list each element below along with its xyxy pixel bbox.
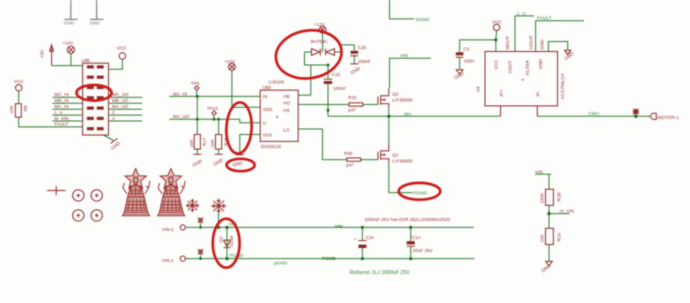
svg-text:pGND: pGND	[274, 261, 288, 267]
svg-text:p47: p47	[346, 163, 354, 168]
svg-text:GND: GND	[64, 21, 75, 26]
svg-text:FILTER: FILTER	[525, 59, 530, 75]
svg-text:10K: 10K	[540, 233, 545, 242]
svg-text:C10: C10	[332, 72, 341, 77]
svg-text:p47: p47	[348, 108, 356, 113]
svg-text:MC_UO: MC_UO	[112, 92, 129, 97]
svg-text:VIN: VIN	[535, 169, 543, 174]
svg-text:GND: GND	[538, 58, 543, 69]
svg-text:100nF: 100nF	[333, 86, 346, 91]
svg-text:U4: U4	[476, 86, 481, 92]
svg-text:PGND: PGND	[413, 190, 427, 196]
svg-text:Rubycon 1LJ 1000uF 25V: Rubycon 1LJ 1000uF 25V	[350, 270, 411, 276]
svg-text:20uF 25V: 20uF 25V	[413, 248, 434, 253]
svg-text:10K: 10K	[189, 138, 194, 147]
svg-text:VCC: VCC	[117, 45, 127, 50]
svg-text:MA: MA	[404, 111, 412, 117]
svg-text:U$5: U$5	[82, 58, 91, 63]
svg-text:MOUT: MOUT	[505, 36, 510, 50]
svg-text:MC_HI: MC_HI	[55, 92, 69, 97]
svg-text:+3V: +3V	[40, 49, 45, 58]
svg-text:IP+: IP+	[499, 89, 504, 96]
svg-text:R31: R31	[348, 95, 357, 100]
svg-text:TP10: TP10	[207, 106, 218, 111]
svg-text:100K: 100K	[540, 192, 545, 204]
svg-text:C2x: C2x	[366, 235, 375, 240]
svg-text:4: 4	[276, 115, 279, 120]
svg-text:FAULT: FAULT	[55, 122, 69, 127]
svg-text:HS: HS	[283, 108, 289, 113]
svg-text:+12V: +12V	[224, 59, 236, 64]
svg-text:Q2: Q2	[392, 91, 399, 96]
svg-text:L_A: L_A	[517, 11, 526, 17]
svg-text:R17: R17	[202, 137, 207, 146]
svg-text:LO: LO	[283, 128, 290, 133]
svg-text:HI: HI	[263, 94, 268, 99]
svg-text:U$3: U$3	[263, 85, 272, 90]
svg-text:VIOUT: VIOUT	[529, 35, 534, 49]
svg-text:VCC: VCC	[492, 19, 502, 24]
svg-text:MA_UO: MA_UO	[173, 114, 190, 119]
svg-text:1000uF 25V low ESR 25ZLJ1000M1: 1000uF 25V low ESR 25ZLJ1000M10X20	[365, 217, 451, 222]
svg-text:SS34: SS34	[229, 235, 234, 247]
svg-text:VOUT: VOUT	[508, 61, 513, 74]
svg-text:MOTOR-1: MOTOR-1	[658, 115, 680, 120]
svg-text:+: +	[354, 237, 357, 242]
svg-text:VIN: VIN	[400, 53, 409, 59]
svg-text:MB_HI: MB_HI	[55, 98, 69, 103]
svg-text:C1A: C1A	[412, 235, 422, 240]
svg-text:MA_UO: MA_UO	[112, 104, 129, 109]
svg-text:SGND: SGND	[416, 17, 430, 23]
svg-text:100nF: 100nF	[358, 59, 371, 64]
svg-text:VSS: VSS	[263, 132, 272, 137]
svg-text:MB_UO: MB_UO	[112, 98, 129, 103]
svg-text:VIN-2: VIN-2	[162, 227, 174, 232]
svg-text:L_A: L_A	[55, 110, 64, 115]
svg-text:+12V: +12V	[63, 41, 75, 46]
svg-text:BAT54C: BAT54C	[311, 39, 329, 44]
svg-text:+12V: +12V	[314, 22, 326, 27]
svg-text:D2: D2	[218, 236, 223, 242]
svg-text:VIN-1: VIN-1	[162, 258, 174, 263]
svg-text:TP9: TP9	[191, 81, 200, 86]
svg-text:VDD: VDD	[263, 107, 273, 112]
svg-text:Q1: Q1	[392, 152, 399, 157]
svg-text:GND: GND	[539, 39, 544, 50]
svg-text:+: +	[522, 78, 525, 84]
svg-text:FAULT: FAULT	[537, 16, 552, 22]
svg-text:PGND: PGND	[322, 256, 336, 262]
svg-text:LV8109: LV8109	[269, 80, 285, 85]
svg-text:VCC: VCC	[14, 79, 24, 84]
svg-text:LIY3000D: LIY3000D	[392, 97, 413, 102]
svg-text:MA_HI: MA_HI	[173, 91, 187, 96]
svg-text:10K: 10K	[9, 104, 14, 113]
svg-text:U: U	[263, 120, 266, 125]
svg-text:M_VIN: M_VIN	[55, 116, 69, 121]
svg-text:ACS758LCA: ACS758LCA	[560, 72, 565, 99]
svg-text:LIY3000D: LIY3000D	[392, 158, 413, 163]
svg-text:C26: C26	[358, 45, 367, 50]
svg-text:CMA: CMA	[588, 111, 599, 117]
svg-text:HO: HO	[283, 101, 290, 106]
svg-text:C3: C3	[463, 47, 469, 52]
svg-text:VIN: VIN	[335, 224, 344, 230]
svg-text:IP-: IP-	[536, 90, 541, 96]
svg-text:10K: 10K	[210, 138, 215, 147]
svg-text:R2B: R2B	[557, 193, 562, 202]
svg-text:DGS8132: DGS8132	[261, 144, 282, 149]
svg-text:AI_VIN: AI_VIN	[559, 209, 574, 214]
svg-text:MA_HI: MA_HI	[55, 104, 69, 109]
svg-text:VCC: VCC	[493, 59, 498, 69]
svg-text:R2A: R2A	[557, 232, 562, 242]
svg-text:HB: HB	[283, 94, 289, 99]
svg-text:100n: 100n	[464, 59, 475, 64]
svg-text:GND: GND	[90, 21, 101, 26]
svg-text:R8: R8	[23, 105, 28, 111]
svg-text:R30: R30	[344, 151, 353, 156]
